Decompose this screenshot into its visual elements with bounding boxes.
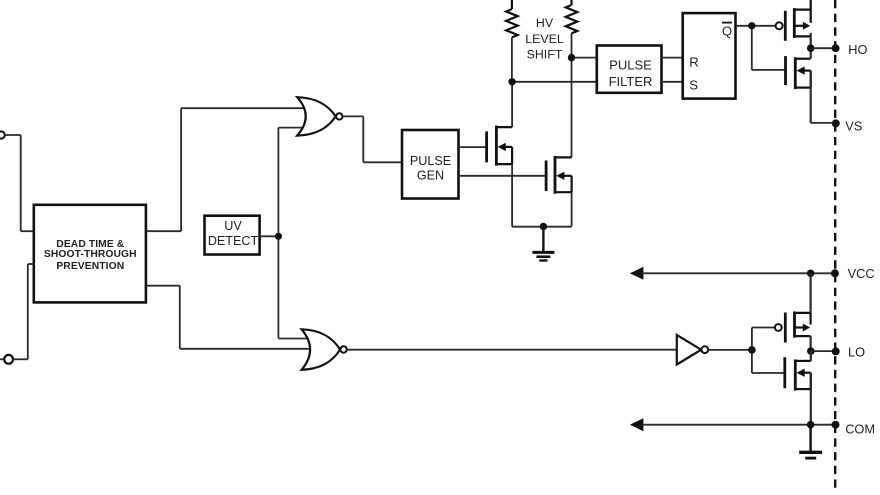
ground symbol (COM) (799, 425, 822, 458)
inverter G3 (677, 335, 708, 365)
VCC net arrow (630, 267, 835, 280)
svg-text:LO: LO (848, 344, 865, 359)
svg-text:COM: COM (845, 422, 875, 437)
wire LIN to dead-time block (13, 264, 34, 359)
wire M1 source to ground rail (511, 164, 513, 227)
svg-text:VS: VS (845, 119, 862, 134)
junction node UV (275, 233, 282, 240)
junction node after inverter (748, 346, 756, 354)
latch U5: R/S flip-flop (683, 13, 736, 99)
transistor M1 (level-shift NMOS, left) (487, 126, 512, 166)
node COM junction (807, 421, 840, 429)
svg-text:LEVEL: LEVEL (525, 32, 564, 46)
ground symbol (level shifter) (532, 227, 554, 261)
wire pulse filter to latch R (662, 57, 683, 59)
wire VCC to M5 source (809, 273, 811, 313)
svg-text:UV: UV (224, 219, 242, 233)
node LO (807, 347, 840, 361)
resistor R2 (HV level shift, right) (566, 0, 578, 33)
label HO (848, 42, 867, 57)
wire R2 to node R / M2 drain (572, 33, 597, 157)
label COM (845, 422, 875, 437)
wire VB feed from top (810, 0, 812, 10)
wire HIN to dead-time block (5, 135, 34, 231)
wire NOR2 output to inverter (347, 349, 677, 351)
svg-text:FILTER: FILTER (609, 74, 653, 89)
wire M5 drain to node LO (809, 336, 811, 351)
node VCC junction (807, 269, 839, 277)
wire node HO to M4 drain (810, 48, 812, 58)
COM net arrow (630, 418, 836, 431)
wire pulse gen to M2 gate (459, 175, 547, 177)
svg-text:R: R (689, 54, 699, 69)
svg-text:PULSE: PULSE (609, 58, 652, 73)
svg-text:PULSE: PULSE (410, 154, 451, 168)
transistor M2 (level-shift NMOS, right) (546, 156, 572, 194)
svg-text:PREVENTION: PREVENTION (56, 261, 124, 272)
svg-text:GEN: GEN (417, 168, 444, 182)
transistor M6 (output NMOS, low side) (785, 357, 811, 390)
transistor M5 (output PMOS, low side) (785, 311, 810, 342)
node VS (832, 119, 840, 127)
block U2: UV detect (205, 216, 260, 255)
junction node Q-bar (748, 22, 755, 29)
wire M3 drain to node HO (810, 33, 812, 48)
svg-text:VCC: VCC (848, 266, 875, 281)
wire M6 source to COM (810, 373, 812, 425)
wire dead-time bottom output to NOR2 input B (146, 286, 311, 349)
wire M2 source to ground rail (571, 192, 573, 227)
wire UV detect output bus (260, 128, 308, 339)
svg-text:SHIFT: SHIFT (527, 48, 563, 62)
input terminal LIN (0, 355, 13, 364)
input terminal HIN (0, 131, 5, 138)
transistor M4 (output NMOS, high side) (786, 56, 811, 89)
NOR gate G1 (high side) (297, 97, 342, 135)
block U3: pulse gen (402, 130, 459, 199)
svg-text:DETECT: DETECT (208, 234, 259, 248)
wire latch Q-bar to output drivers (736, 26, 786, 70)
node HO (807, 44, 840, 52)
wire pulse filter to latch S (662, 81, 683, 83)
svg-text:S: S (689, 77, 698, 92)
gate bubble of M3 (776, 22, 783, 29)
label LO (848, 344, 865, 359)
ground rail (512, 223, 571, 231)
wire dead-time top output to NOR1 input A (146, 108, 305, 231)
svg-text:SHOOT-THROUGH: SHOOT-THROUGH (44, 249, 137, 260)
wire pulse gen to M1 gate (459, 146, 487, 148)
label VCC (848, 266, 875, 281)
svg-text:Q: Q (722, 23, 732, 38)
transistor M3 (output PMOS, high side) (785, 8, 810, 41)
block U4: pulse filter (597, 46, 662, 93)
node S junction (508, 78, 515, 85)
block U1: dead time & shoot-through prevention (34, 205, 146, 303)
wire NOR1 output to pulse gen (343, 116, 403, 162)
label VS (845, 119, 862, 134)
wire M4 source to node VS (811, 71, 836, 123)
resistor R1 (HV level shift, left) (506, 0, 518, 37)
NOR gate G2 (low side) (302, 329, 347, 370)
node R junction (568, 54, 575, 61)
wire R1 to node S / M1 drain (512, 37, 597, 127)
svg-text:HV: HV (536, 16, 554, 30)
label HV LEVEL SHIFT (525, 16, 564, 61)
svg-text:HO: HO (848, 42, 867, 57)
gate bubble of M5 (775, 324, 782, 331)
wire inverter output to gate splitter (708, 328, 785, 374)
dashed IC boundary line (834, 0, 836, 488)
